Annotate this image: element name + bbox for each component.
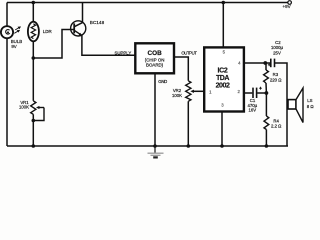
wire IC2 pin 2 to C1 — [244, 92, 252, 94]
svg-text:BOARD): BOARD) — [146, 63, 164, 68]
VR1 wiper arrow and loop to bottom — [33, 108, 44, 121]
node: base junction on LDR line — [32, 56, 36, 60]
svg-text:OUTPUT: OUTPUT — [181, 50, 197, 55]
bulb L1 circle — [1, 26, 13, 38]
wire COB GND to bottom rail — [154, 73, 156, 146]
wire left vertical (bulb branch) — [6, 3, 8, 27]
svg-text:TDA: TDA — [216, 75, 229, 82]
svg-text:+9V: +9V — [283, 4, 291, 9]
capacitor C2 plates — [270, 59, 272, 68]
wire node to C2 left plate — [265, 62, 270, 64]
svg-text:R3: R3 — [273, 72, 279, 77]
LDR inner zigzag — [31, 24, 35, 39]
svg-text:2.2 Ω: 2.2 Ω — [271, 124, 282, 129]
node: pin4/C2/R3 — [263, 61, 267, 65]
transistor Q1 base bar — [73, 23, 75, 33]
node: COB GND at bottom rail — [153, 144, 157, 148]
transistor Q1 BC148 circle — [71, 21, 86, 36]
wire VR2 wiper to IC2 pin 1 — [193, 90, 205, 92]
node: LDR branch at top rail — [32, 1, 36, 5]
svg-text:IC2: IC2 — [218, 67, 228, 74]
wire IC2 pin 4 to node (C2/R3) — [244, 62, 265, 64]
wire R4 bottom lead — [265, 130, 267, 147]
resistor R3 zigzag — [264, 70, 269, 83]
svg-text:9V: 9V — [11, 44, 16, 49]
wire IC2 pin 3 to bottom rail — [221, 112, 223, 147]
IC2 TDA2002 box — [204, 47, 244, 111]
transistor Q1 emitter with arrow — [74, 30, 82, 35]
wire R3 top lead — [265, 63, 267, 70]
wire base of Q1 to LDR/VR1 node — [33, 30, 74, 59]
node: VR1 wiper junction — [32, 119, 36, 123]
svg-text:2002: 2002 — [216, 83, 230, 90]
wire C1 right plate to node (R3/R4) — [257, 92, 266, 94]
wire LDR branch vertical — [32, 3, 34, 22]
wire C2 right to loudspeaker — [275, 63, 287, 146]
wire COB OUTPUT down to VR2 — [174, 57, 188, 81]
wire emitter of Q1 to COB SUPPLY — [82, 35, 135, 55]
node: pin5 branch at top rail — [222, 1, 226, 5]
node: LDR/VR1 at bottom rail — [32, 144, 36, 148]
node: R4 at bottom rail — [265, 144, 269, 148]
wire bottom rail (ground) — [7, 145, 288, 147]
svg-text:GND: GND — [158, 79, 167, 84]
resistor R4 zigzag — [264, 116, 269, 130]
node: C1/R3/R4 — [265, 91, 269, 95]
wire top rail +9V — [7, 2, 288, 4]
wire collector of Q1 to top rail — [75, 3, 83, 27]
svg-text:SUPPLY: SUPPLY — [115, 50, 132, 55]
VR2 zigzag resistor — [186, 81, 191, 102]
svg-text:(CHIP ON: (CHIP ON — [145, 57, 165, 62]
+9V supply terminal — [288, 1, 292, 5]
capacitor C1 polarity + — [259, 87, 262, 90]
svg-text:16V: 16V — [248, 107, 256, 112]
svg-text:100K: 100K — [19, 104, 29, 109]
bulb L1 filament — [6, 30, 10, 35]
wire top rail to IC2 pin 5 — [222, 3, 224, 48]
VR1 zigzag resistor — [31, 101, 36, 115]
svg-text:220 Ω: 220 Ω — [270, 78, 282, 83]
svg-text:8 Ω: 8 Ω — [307, 104, 314, 109]
wire R4 top lead — [265, 93, 267, 116]
svg-text:BC148: BC148 — [90, 20, 105, 25]
svg-text:COB: COB — [147, 50, 162, 57]
loudspeaker LS box — [288, 100, 296, 109]
wire R3 bottom lead — [265, 83, 267, 93]
capacitor C1 plates — [252, 88, 254, 98]
capacitor C2 polarity + — [268, 63, 271, 66]
COB block (chip on board) — [135, 43, 174, 73]
wire VR2 bottom to bottom rail — [187, 101, 189, 146]
svg-text:100K: 100K — [172, 93, 182, 98]
LDR ellipse — [28, 22, 39, 42]
node: VR2 at bottom rail — [187, 144, 191, 148]
VR2 wiper arrow — [190, 90, 194, 93]
loudspeaker LS cone — [296, 88, 303, 123]
svg-text:LDR: LDR — [43, 29, 53, 34]
svg-text:LS: LS — [307, 98, 312, 103]
node: IC2 pin3 at bottom rail — [220, 144, 224, 148]
bulb light rays — [14, 27, 20, 33]
ground symbol — [154, 146, 156, 153]
svg-text:25V: 25V — [273, 50, 281, 55]
